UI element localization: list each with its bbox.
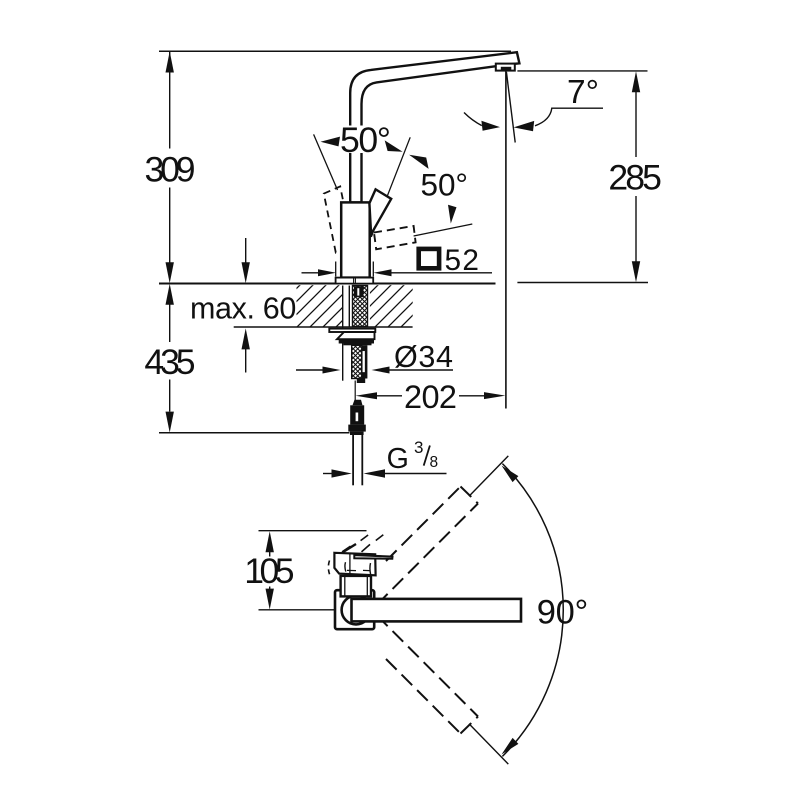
supply connector check valve: [353, 400, 363, 406]
annotation 50 degree second arrow: [448, 205, 457, 224]
wire top height reference line: [159, 50, 511, 52]
label square 52 symbol: [419, 249, 439, 268]
handle dashed right position: [374, 226, 416, 249]
mounting nut washer: [329, 329, 375, 332]
plan view base square: [335, 590, 374, 629]
svg-text:50°: 50°: [421, 167, 469, 203]
spout 7 degree tilted line: [506, 72, 515, 143]
svg-text:202: 202: [404, 379, 457, 415]
dimension 435 vertical line: [169, 305, 171, 412]
dimension 105 bottom reference line: [259, 609, 341, 611]
handle swing axis line left (dashed position): [314, 134, 338, 190]
plan view spout dashed position upper: [377, 487, 478, 605]
dimension 309 vertical line: [169, 52, 171, 263]
threaded shank lower section: [352, 345, 362, 378]
spout aerator: [496, 64, 515, 71]
annotation 7 degree leader and arc: [535, 108, 603, 126]
svg-text:8: 8: [430, 454, 439, 471]
countertop slab hatch left: [297, 285, 343, 326]
svg-text:285: 285: [608, 158, 662, 198]
supply hose lines: [352, 435, 354, 485]
handle swing axis line solid position: [371, 137, 410, 237]
plan view handle blade: [354, 555, 392, 559]
svg-text:G: G: [387, 443, 409, 475]
svg-text:7°: 7°: [567, 74, 599, 111]
faucet base plate: [336, 278, 374, 284]
annotation 50 degree first arrows: [321, 137, 341, 147]
dimension 90 degree arc: [502, 464, 563, 757]
dimension 285 vertical line: [635, 92, 637, 262]
node countertop surface line: [159, 283, 496, 285]
annotation 50 degree second arrow at solid axis: [409, 155, 429, 169]
plan view spout bar: [352, 599, 522, 622]
dimension 52 extension lines: [335, 262, 337, 277]
svg-text:435: 435: [144, 342, 195, 382]
svg-text:52: 52: [445, 244, 480, 277]
plan view swing extension line upper: [469, 456, 508, 496]
svg-text:Ø34: Ø34: [394, 340, 453, 374]
svg-text:105: 105: [244, 551, 294, 591]
plan view handle inner details: [343, 544, 357, 552]
dimension max.60 top arrow: [245, 238, 247, 263]
handle dashed left position: [324, 186, 352, 252]
svg-text:max. 60: max. 60: [190, 291, 296, 325]
plan view body square: [341, 576, 371, 597]
dimension 105 arrows: [269, 552, 271, 557]
plan view handle body: [334, 553, 375, 576]
svg-text:90°: 90°: [537, 594, 589, 632]
wire 435 bottom reference line: [159, 432, 350, 434]
spout outlet vertical plumb line: [505, 71, 507, 409]
faucet body: [341, 202, 370, 277]
svg-text:3: 3: [414, 438, 423, 457]
mounting nut body: [337, 332, 375, 339]
handle right axis extension line: [414, 224, 473, 236]
dimension 52 arrows: [302, 272, 319, 274]
plan view pivot circle: [342, 596, 371, 625]
threaded shank pull rod lines: [342, 286, 344, 381]
supply connector centerline: [354, 381, 356, 401]
label 50 degree first: [338, 126, 392, 154]
plan view swing extension line lower: [469, 724, 508, 764]
spout pipe and arm: [350, 52, 519, 202]
dimension 202 line: [377, 395, 403, 397]
countertop slab bottom line: [234, 326, 413, 328]
dimension 285 bottom reference line: [517, 282, 648, 284]
dimension G3/8 arrows: [323, 473, 333, 475]
dimension 285 top reference line: [517, 70, 647, 72]
svg-text:309: 309: [145, 150, 196, 190]
svg-text:50°: 50°: [340, 120, 391, 160]
plan view handle dashed hints: [328, 535, 383, 576]
countertop slab hatch right: [370, 285, 413, 326]
dimension diameter 34 arrows: [296, 369, 323, 371]
plan view spout dashed position lower: [377, 616, 478, 734]
dimension 105 top reference line: [259, 530, 367, 532]
dimension max.60 bottom arrow: [245, 349, 247, 373]
threaded shank upper section: [353, 286, 368, 327]
handle solid position: [369, 189, 391, 234]
